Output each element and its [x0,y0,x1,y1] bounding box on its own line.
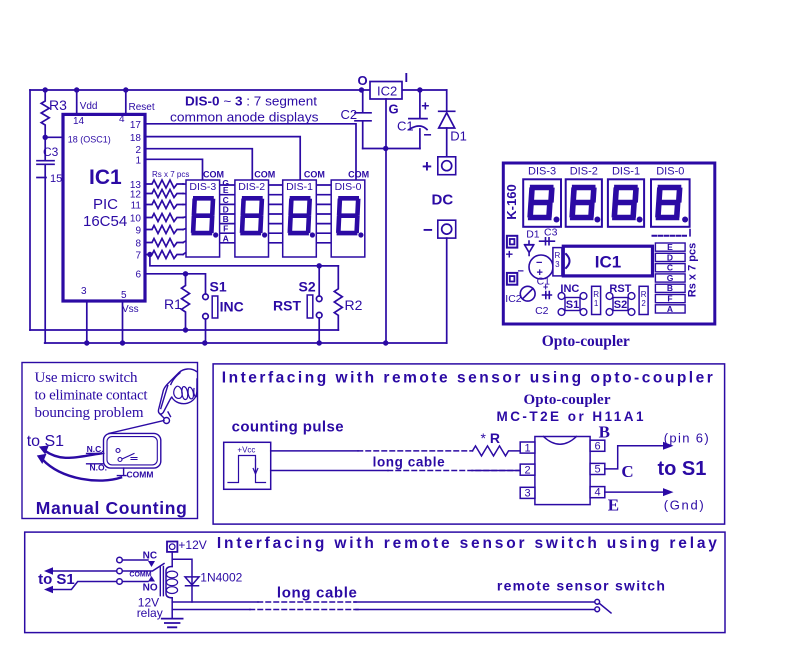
wire pin5 [122,301,124,343]
svg-text:to S1: to S1 [38,571,75,588]
capacitor C1 [409,90,427,149]
segment label column [222,178,229,244]
svg-text:A: A [667,304,673,314]
pcb C1 electrolytic [529,255,553,279]
resistor R2 [319,266,342,330]
svg-text:+: + [422,157,432,176]
wire pin2 to DIS-2 COM [145,149,252,180]
svg-text:G: G [667,273,674,283]
svg-text:NO: NO [143,583,158,594]
pcb display DIS-3 [523,166,561,227]
svg-text:3: 3 [81,286,87,297]
resistor Ra5 [145,226,183,234]
svg-text:5: 5 [594,464,600,476]
svg-text:−: − [518,266,524,278]
svg-text:E: E [223,185,229,195]
wire NC to arrow [45,451,102,458]
svg-text:R: R [641,290,647,299]
svg-text:3: 3 [555,260,560,269]
svg-text:D1: D1 [526,229,540,241]
pin 2 [520,464,535,475]
svg-text:D: D [223,205,229,215]
sensor switch symbol [595,599,600,604]
svg-text:C2: C2 [535,305,549,317]
wire segment bus 3 [183,203,356,205]
node R1 top [183,271,188,276]
wire bottom rail 1 [30,329,338,331]
svg-text:C1: C1 [397,119,414,134]
wire pin5 to arrow [605,446,663,469]
svg-text:RST: RST [609,283,631,295]
node pin7 [147,252,152,257]
svg-text:DIS-0: DIS-0 [656,166,684,178]
svg-text:Vss: Vss [122,304,139,315]
svg-text:Manual Counting: Manual Counting [36,498,187,518]
terminal NO [87,463,104,465]
node S2 top [317,263,322,268]
terminal COMM [117,468,126,476]
svg-text:to S1: to S1 [658,458,707,480]
resistor Ra1 [145,180,183,188]
hand pointer [158,369,197,414]
diode 1N4002 [185,577,199,586]
switch S2 [318,266,320,296]
svg-text:2: 2 [641,299,646,308]
pcb switch S2 pads [606,293,635,316]
svg-text:2: 2 [524,465,530,477]
node top junctions [43,87,423,92]
capacitor C3 [37,137,54,343]
display DIS-1 [283,180,317,257]
svg-text:B: B [599,423,610,442]
svg-text:DIS-2: DIS-2 [238,181,265,193]
terminal NC [87,452,104,454]
contact COMM lever [122,564,164,572]
svg-text:IC2: IC2 [505,293,522,305]
svg-text:MC-T2E or H11A1: MC-T2E or H11A1 [497,409,644,424]
svg-text:Interfacing with remote sensor: Interfacing with remote sensor using opt… [222,370,713,387]
svg-text:C3: C3 [43,145,59,159]
wire segment bus 7 [183,243,356,255]
pcb Rs column [655,242,685,314]
svg-text:COM: COM [203,170,224,180]
wire to diode [172,559,192,602]
contact circles [117,557,123,563]
wire segment bus 1 [183,184,356,185]
svg-text:RST: RST [273,298,301,314]
svg-text:Rs x 7 pcs: Rs x 7 pcs [152,170,189,179]
svg-text:A: A [223,233,229,243]
RELAY BOX [25,532,725,633]
svg-text:K-160: K-160 [504,184,519,219]
svg-text:B: B [223,214,229,224]
svg-text:COM: COM [254,170,275,180]
svg-text:COM: COM [348,170,369,180]
terminal DC plus [438,157,456,175]
svg-text:11: 11 [131,201,142,212]
resistor Ra2 [145,190,183,198]
svg-text:9: 9 [135,226,141,237]
svg-text:common anode displays: common anode displays [170,110,319,125]
pcb C2 [543,292,552,299]
svg-text:17: 17 [130,120,142,131]
svg-text:Interfacing with remote sensor: Interfacing with remote sensor switch us… [217,535,717,552]
wire segment bus 2 [183,194,356,195]
pin 4 [590,487,605,498]
box border [22,363,198,519]
svg-text:F: F [667,294,672,304]
PCB LAYOUT IMAGE [503,163,715,324]
svg-text:5: 5 [121,290,127,301]
svg-text:IC2: IC2 [377,84,397,99]
terminal +12V [167,542,177,552]
wire pin4 to arrow [605,491,663,493]
pcb display DIS-0 [651,166,690,227]
svg-text:C: C [621,462,633,481]
svg-text:Vdd: Vdd [80,101,98,112]
resistor *R [473,446,521,456]
svg-text:1: 1 [135,156,141,167]
terminal DC minus [438,220,456,238]
svg-text:+: + [506,247,514,262]
resistor Ra3 [145,201,183,209]
svg-text:+: + [421,98,429,114]
pcb display DIS-2 [566,166,602,227]
svg-text:Use micro switch: Use micro switch [35,370,139,386]
box border [25,532,725,633]
pcb IC2 [520,286,535,301]
pin 1 [520,442,535,453]
svg-text:12: 12 [130,190,142,201]
svg-text:7: 7 [135,251,141,262]
capacitor C2 [355,90,371,149]
wire G down [385,99,387,343]
svg-text:C: C [223,195,229,205]
wire pin7 branch to S2/R2 [150,255,338,266]
svg-text:S1: S1 [210,279,227,295]
svg-text:+12V: +12V [178,538,206,552]
wire pin1 to DIS-3 COM [145,159,203,180]
svg-text:16C54: 16C54 [83,213,127,230]
svg-text:PIC: PIC [93,196,118,213]
contact NO [122,581,148,583]
svg-text:F: F [223,224,228,234]
wire minus to bottom [446,238,448,343]
svg-text:COMM: COMM [127,470,154,480]
relay coil [160,567,163,596]
pcb IC1 [563,246,652,276]
svg-text:18 (OSC1): 18 (OSC1) [68,135,111,145]
opto IC U1 body [535,437,590,505]
svg-text:15: 15 [50,173,62,185]
svg-text:INC: INC [220,299,244,315]
wire pin6 to S1 [145,274,206,294]
svg-text:C: C [667,263,673,273]
wire ground link [363,148,420,150]
wire segment bus 5 [183,224,356,230]
svg-text:E: E [667,242,673,252]
node G junction [383,146,388,151]
svg-text:bouncing problem: bouncing problem [35,405,144,421]
wire pin17 to DIS-0 COM [145,124,356,180]
svg-text:long cable: long cable [373,455,445,470]
pcb display DIS-1 [608,166,644,227]
svg-text:−: − [423,221,433,240]
pcb plus pad [507,236,517,248]
resistor R1 [182,274,190,330]
svg-text:−: − [424,127,432,143]
pulse source box [224,442,271,489]
wire cable bottom [271,470,388,472]
pcb minus pad [507,273,517,285]
MANUAL COUNTING BOX [22,363,198,519]
svg-text:10: 10 [130,214,142,225]
cable line A [172,601,258,603]
svg-text:DIS-1: DIS-1 [286,181,313,193]
svg-text:S1: S1 [566,299,579,311]
resistor Ra6 [145,239,183,247]
OPTO COUPLER BOX [213,364,724,524]
contact NC [122,559,148,561]
svg-text:R1: R1 [164,296,182,312]
resistor R3 [41,90,49,137]
svg-text:IC1: IC1 [89,166,122,189]
svg-text:R3: R3 [49,97,67,113]
svg-text:Rs x 7 pcs: Rs x 7 pcs [687,243,699,297]
svg-text:S2: S2 [299,279,316,295]
wire Vdd pin14 [76,90,78,114]
svg-text:R: R [593,290,599,299]
svg-text:DIS-1: DIS-1 [612,166,640,178]
svg-text:D1: D1 [450,129,467,144]
display DIS-0 [331,180,365,257]
micro switch lever [109,421,164,434]
svg-text:1N4002: 1N4002 [200,571,242,585]
wire cable top [271,450,358,452]
wire coil bottom to ground [171,598,173,619]
svg-text:+: + [543,282,548,292]
node osc [43,135,48,140]
wire pin18 to DIS-1 COM [145,137,300,180]
svg-text:1: 1 [524,443,530,455]
svg-text:6: 6 [135,270,141,281]
svg-text:NC: NC [143,551,157,562]
wire +12V down [171,552,173,567]
svg-text:+Vcc: +Vcc [237,446,255,455]
svg-text:14: 14 [73,116,85,127]
svg-text:IC1: IC1 [595,253,621,272]
svg-text:counting pulse: counting pulse [232,419,344,436]
micro switch contacts [116,449,120,453]
svg-text:Opto-coupler: Opto-coupler [524,392,611,408]
ground [162,619,183,628]
svg-text:(pin 6): (pin 6) [664,431,709,446]
svg-text:8: 8 [135,239,141,250]
pcb border [503,163,715,324]
svg-text:E: E [608,496,619,515]
svg-text:DIS-3: DIS-3 [528,166,556,178]
box border [213,364,724,524]
svg-text:6: 6 [594,441,600,453]
svg-text:3: 3 [524,488,530,500]
micro switch body [104,433,161,468]
svg-text:R2: R2 [345,297,363,313]
junction dots bottom rails [84,327,388,345]
svg-text:DIS-0: DIS-0 [335,181,362,193]
display DIS-2 [235,180,269,257]
pin 3 [520,487,535,498]
wire Reset pin4 [125,90,127,114]
pin 5 [590,463,605,474]
svg-text:R: R [555,251,561,260]
svg-text:relay: relay [137,606,163,620]
svg-text:B: B [667,283,673,293]
svg-text:C3: C3 [544,227,558,239]
svg-text:DIS-3: DIS-3 [189,181,216,193]
pcb R2 [639,286,648,314]
svg-text:(Gnd): (Gnd) [664,498,704,513]
pin15 tick [37,177,46,179]
pin 6 [590,440,605,451]
svg-text:COMM: COMM [129,572,151,579]
svg-text:DIS-0 ~ 3 : 7 segment: DIS-0 ~ 3 : 7 segment [185,94,317,109]
wire pin3 [86,301,88,343]
svg-text:D: D [667,252,673,262]
pcb switch S1 pads [558,293,587,316]
svg-text:* R: * R [481,430,500,446]
diode D1 [439,90,455,157]
svg-text:remote sensor switch: remote sensor switch [497,578,665,594]
pcb dashed jumper [653,235,689,237]
svg-text:Opto-coupler: Opto-coupler [542,333,630,350]
wire left outer vertical [29,90,31,330]
svg-text:4: 4 [119,114,125,125]
wire segment bus 6 [183,233,356,242]
pcb R3 [553,248,562,276]
wire bottom rail 2 [45,342,447,344]
resistor Ra4 [145,214,183,222]
svg-text:DC: DC [432,192,454,209]
svg-text:to eliminate contact: to eliminate contact [35,388,149,404]
regulator IC2 [370,82,402,100]
svg-text:2: 2 [135,145,141,156]
svg-text:4: 4 [594,487,600,499]
switch S1 [203,294,209,300]
resistor Ra7 [145,251,183,259]
svg-text:long cable: long cable [277,585,357,602]
cable line B [172,609,250,611]
wire arrow COMM to S1 [53,570,117,572]
svg-text:DIS-2: DIS-2 [570,166,598,178]
wire NO COMM to arrow [43,460,122,481]
svg-text:S2: S2 [614,299,627,311]
svg-text:Reset: Reset [129,102,155,113]
svg-text:N.O.: N.O. [90,463,107,473]
svg-text:to S1: to S1 [27,433,64,450]
svg-text:1: 1 [594,299,599,308]
wire top rail [30,89,447,91]
svg-text:C2: C2 [341,107,358,122]
display DIS-3 [186,180,220,257]
wire osc to IC [45,136,63,138]
svg-text:G: G [389,102,399,117]
wire segment bus 4 [183,214,356,218]
IC1 PIC16C54 [63,114,145,301]
svg-text:I: I [405,70,409,85]
svg-text:18: 18 [130,133,142,144]
pcb R1 [592,286,601,314]
wire arrow NO to S1 [53,582,117,590]
svg-text:COM: COM [304,170,325,180]
svg-text:O: O [358,73,368,88]
